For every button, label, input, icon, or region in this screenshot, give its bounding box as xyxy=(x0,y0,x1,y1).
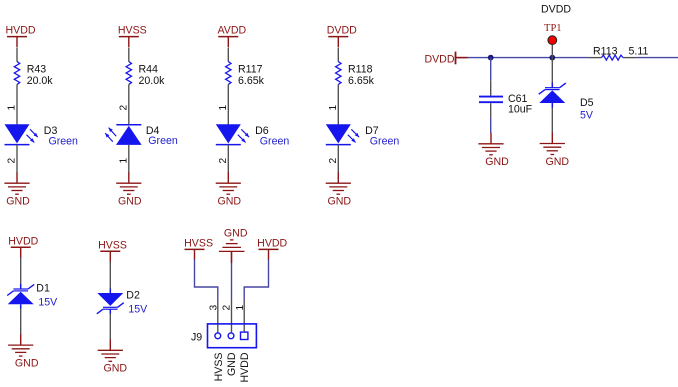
resistor R118 xyxy=(336,62,375,88)
svg-text:GND: GND xyxy=(104,363,128,375)
wire xyxy=(16,145,18,173)
power port HVSS xyxy=(184,237,213,260)
svg-text:Green: Green xyxy=(260,135,290,147)
svg-text:HVSS: HVSS xyxy=(98,239,127,251)
resistor R113 xyxy=(593,46,648,61)
svg-text:Green: Green xyxy=(148,135,178,147)
power port HVDD xyxy=(8,235,38,257)
svg-text:20.0k: 20.0k xyxy=(139,75,166,87)
wire xyxy=(337,48,339,62)
ground xyxy=(478,133,509,168)
svg-text:GND: GND xyxy=(6,196,30,208)
power port DVDD xyxy=(327,25,357,48)
svg-text:J9: J9 xyxy=(191,332,202,344)
wire xyxy=(16,48,18,62)
svg-text:R113: R113 xyxy=(593,46,618,58)
zener diode D1 xyxy=(7,283,58,310)
svg-text:R117: R117 xyxy=(238,64,263,76)
pin label HVDD xyxy=(239,352,251,382)
svg-text:2: 2 xyxy=(7,158,18,164)
svg-text:15V: 15V xyxy=(128,304,148,316)
pin label GND xyxy=(226,352,238,376)
pin 3 xyxy=(209,305,220,311)
wire xyxy=(109,261,111,289)
svg-text:3: 3 xyxy=(209,305,220,311)
svg-text:2: 2 xyxy=(328,158,339,164)
wire xyxy=(20,309,22,335)
svg-text:1: 1 xyxy=(119,158,130,164)
svg-text:15V: 15V xyxy=(38,297,58,309)
ground xyxy=(540,133,570,168)
node junction D5/TP1 xyxy=(549,55,555,61)
wire xyxy=(490,58,492,81)
wire xyxy=(231,251,233,263)
zener diode D2 xyxy=(97,289,148,316)
pin 1 xyxy=(119,158,130,164)
LED D7 xyxy=(326,124,400,147)
svg-text:HVDD: HVDD xyxy=(8,235,38,247)
LED D4 xyxy=(105,125,178,147)
wire xyxy=(109,314,111,340)
pin 2 xyxy=(328,158,339,164)
node junction C61 xyxy=(488,55,494,61)
svg-text:GND: GND xyxy=(15,358,39,370)
svg-text:HVSS: HVSS xyxy=(213,353,225,382)
svg-text:10uF: 10uF xyxy=(508,104,533,116)
svg-text:1: 1 xyxy=(7,105,18,111)
svg-text:Green: Green xyxy=(370,135,400,147)
wire xyxy=(243,301,245,332)
wire xyxy=(16,85,18,125)
resistor R117 xyxy=(226,62,265,88)
power port AVDD xyxy=(217,25,246,48)
svg-text:GND: GND xyxy=(118,196,142,208)
svg-text:GND: GND xyxy=(485,156,509,168)
power port HVDD xyxy=(5,25,35,48)
wire xyxy=(217,301,219,334)
wire xyxy=(227,48,229,62)
svg-text:1: 1 xyxy=(218,105,229,111)
svg-text:TP1: TP1 xyxy=(544,23,562,34)
wire xyxy=(337,145,339,173)
svg-text:2: 2 xyxy=(222,305,233,311)
wire xyxy=(128,48,130,62)
svg-text:6.65k: 6.65k xyxy=(238,75,265,87)
ground xyxy=(116,172,142,207)
LED D3 xyxy=(5,124,79,147)
wire xyxy=(490,117,492,133)
pin 2 xyxy=(222,305,233,311)
svg-text:Green: Green xyxy=(49,135,79,147)
wire xyxy=(128,85,130,125)
pin 1 xyxy=(235,305,246,311)
testpoint TP1 xyxy=(544,23,562,58)
wire xyxy=(623,57,637,59)
resistor R43 xyxy=(14,62,53,88)
svg-text:GND: GND xyxy=(218,196,242,208)
wire xyxy=(231,301,233,334)
svg-text:DVDD: DVDD xyxy=(424,54,454,66)
power port DVDD (left) xyxy=(424,52,467,66)
svg-text:R44: R44 xyxy=(139,64,159,76)
svg-text:HVSS: HVSS xyxy=(184,237,213,249)
svg-text:D1: D1 xyxy=(36,283,50,295)
wire xyxy=(128,145,130,173)
svg-text:AVDD: AVDD xyxy=(217,25,246,37)
svg-text:R118: R118 xyxy=(348,64,373,76)
ground xyxy=(8,334,39,369)
pin 1 xyxy=(7,105,18,111)
svg-text:HVDD: HVDD xyxy=(257,237,287,249)
resistor R44 xyxy=(126,62,165,88)
ground xyxy=(98,339,128,374)
wire xyxy=(637,57,678,59)
connector J9 xyxy=(191,324,256,348)
svg-text:GND: GND xyxy=(224,228,248,240)
power port HVDD xyxy=(257,237,287,260)
zener diode D5 xyxy=(539,83,594,122)
svg-text:2: 2 xyxy=(218,158,229,164)
wire xyxy=(20,257,22,284)
svg-text:D5: D5 xyxy=(580,97,594,109)
pin 1 xyxy=(218,105,229,111)
svg-text:R43: R43 xyxy=(27,64,47,76)
svg-text:5V: 5V xyxy=(580,109,594,121)
wire xyxy=(195,259,218,300)
pin 2 xyxy=(119,105,130,111)
svg-text:2: 2 xyxy=(119,105,130,111)
svg-text:HVDD: HVDD xyxy=(5,25,35,37)
svg-text:HVDD: HVDD xyxy=(239,352,251,382)
wire xyxy=(244,259,268,300)
svg-text:GND: GND xyxy=(226,352,238,376)
ground (inverted) xyxy=(219,228,248,252)
wire xyxy=(551,108,553,133)
pin 1 xyxy=(328,105,339,111)
svg-text:GND: GND xyxy=(546,156,570,168)
power port HVSS xyxy=(98,239,127,261)
svg-text:DVDD: DVDD xyxy=(327,25,357,37)
power port HVSS xyxy=(118,25,147,48)
svg-text:D2: D2 xyxy=(126,290,140,302)
ground xyxy=(216,172,242,207)
svg-text:DVDD: DVDD xyxy=(541,3,571,15)
wire xyxy=(468,57,589,59)
svg-text:6.65k: 6.65k xyxy=(348,75,375,87)
svg-text:1: 1 xyxy=(235,305,246,311)
svg-text:5.11: 5.11 xyxy=(629,46,649,58)
LED D6 xyxy=(216,124,290,147)
svg-text:20.0k: 20.0k xyxy=(27,75,54,87)
pin label HVSS xyxy=(213,353,225,382)
svg-text:HVSS: HVSS xyxy=(118,25,147,37)
wire xyxy=(337,85,339,125)
capacitor C61 xyxy=(479,80,533,117)
ground xyxy=(4,172,30,207)
wire xyxy=(231,263,233,301)
pin 2 xyxy=(218,158,229,164)
ground xyxy=(326,172,352,207)
svg-text:GND: GND xyxy=(328,196,352,208)
wire xyxy=(551,58,553,83)
wire xyxy=(227,145,229,173)
pin 2 xyxy=(7,158,18,164)
wire xyxy=(227,85,229,125)
wire xyxy=(589,57,602,59)
svg-text:1: 1 xyxy=(328,105,339,111)
